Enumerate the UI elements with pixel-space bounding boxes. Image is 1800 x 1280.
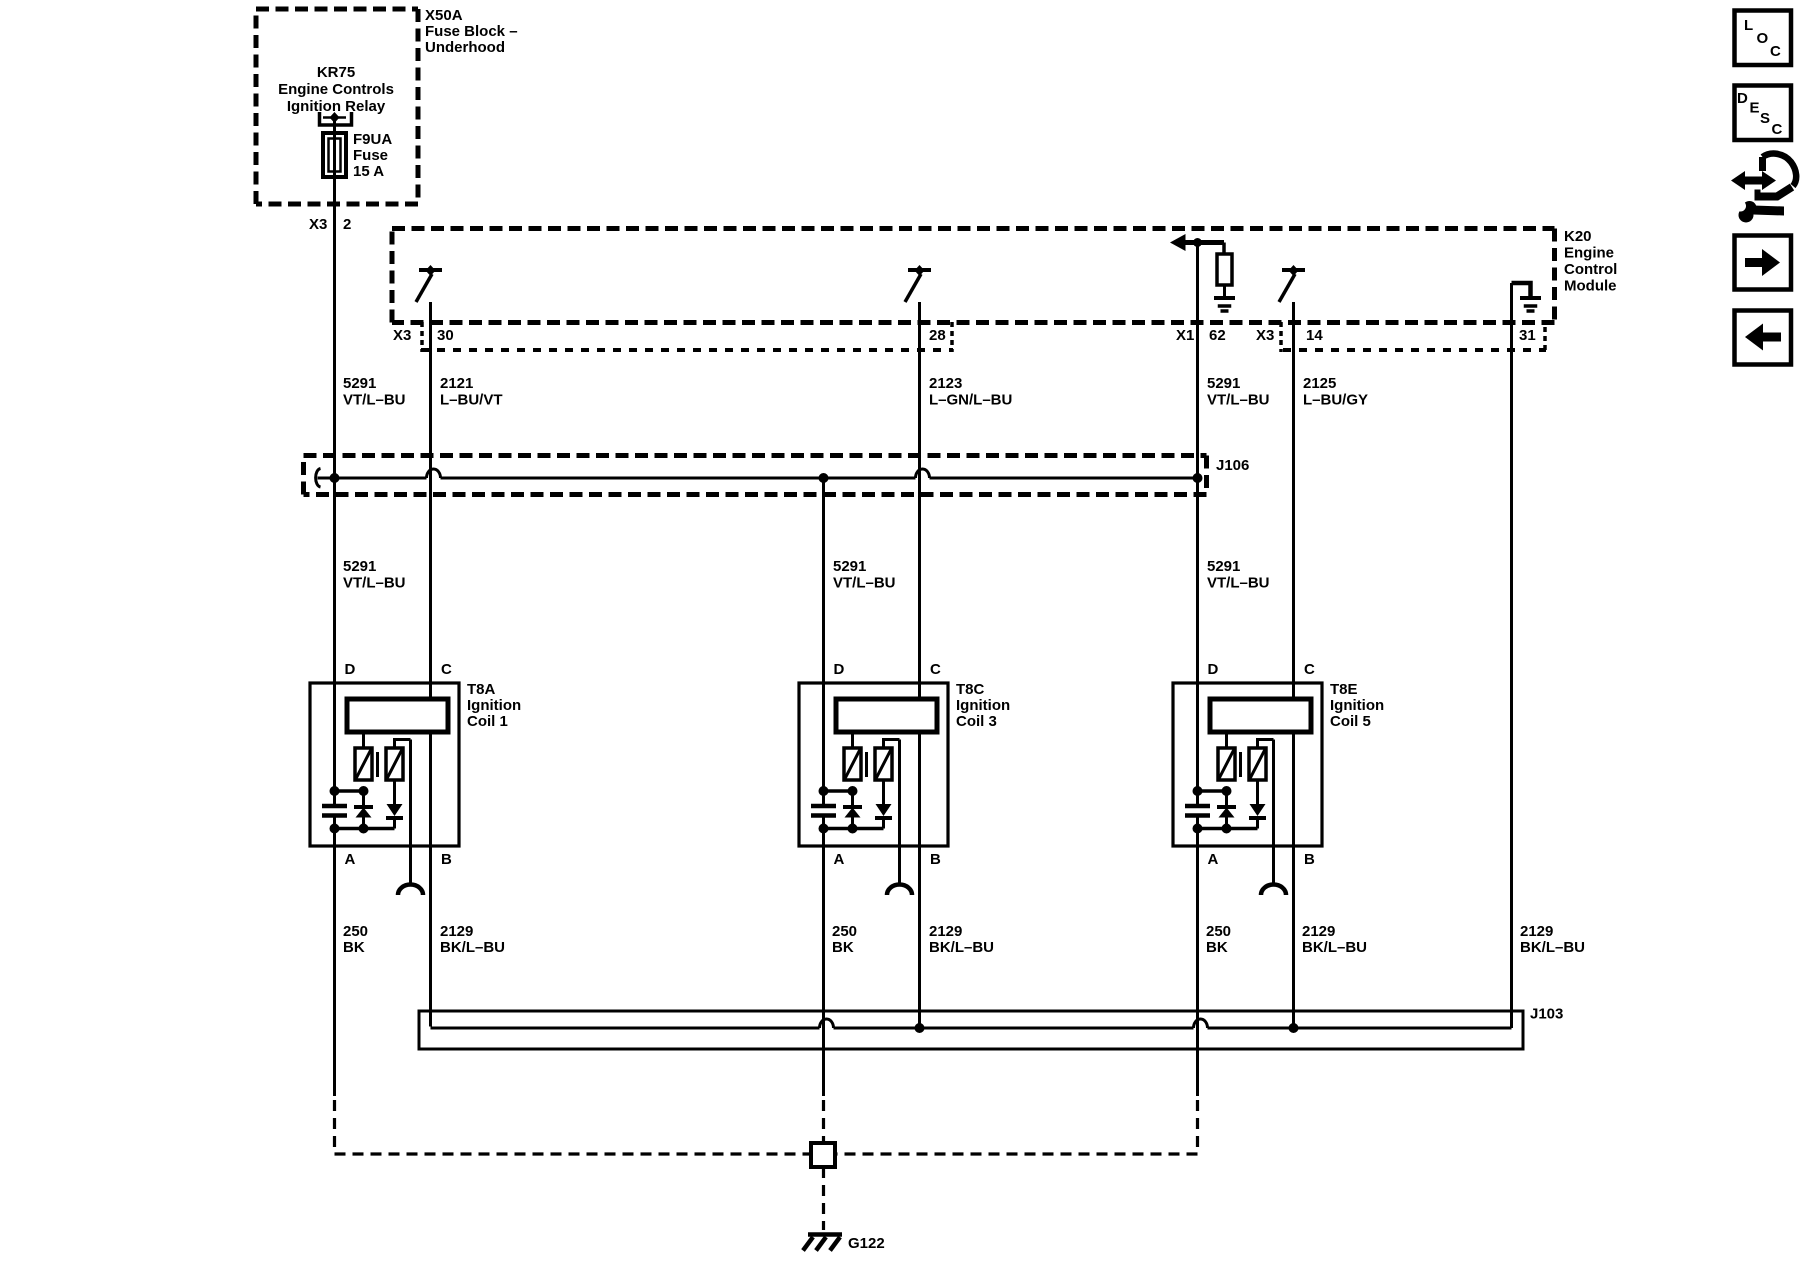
wire 2129 pin31 to J103 [1510, 283, 1513, 1028]
svg-text:BK/L–BU: BK/L–BU [929, 939, 994, 956]
svg-text:KR75: KR75 [317, 64, 355, 81]
svg-text:BK: BK [832, 939, 854, 956]
svg-text:2: 2 [343, 216, 351, 233]
button next arrow [1735, 236, 1792, 290]
svg-text:BK/L–BU: BK/L–BU [1520, 939, 1585, 956]
label wire 2123 [929, 375, 1012, 409]
svg-text:J103: J103 [1530, 1006, 1563, 1023]
svg-text:X3: X3 [309, 216, 327, 233]
svg-text:30: 30 [437, 327, 454, 344]
svg-text:T8C: T8C [956, 681, 985, 698]
svg-text:X3: X3 [1256, 327, 1274, 344]
svg-text:T8E: T8E [1330, 681, 1358, 698]
connector labels X3 14 [1256, 327, 1323, 344]
svg-text:28: 28 [929, 327, 946, 344]
label X50A Fuse Block Underhood [425, 7, 518, 56]
svg-text:C: C [1772, 121, 1783, 138]
svg-text:L–BU/GY: L–BU/GY [1303, 392, 1368, 409]
label wire 2129 col1 [440, 923, 505, 956]
label K20 Engine Control Module [1564, 228, 1617, 295]
wire 5291 pin62 to coil5 [1196, 243, 1199, 806]
svg-text:Fuse Block –: Fuse Block – [425, 23, 518, 40]
ground G122 [803, 1235, 842, 1251]
label wire 5291 row1 col1 [343, 375, 406, 409]
label wire 250 col3 [832, 923, 857, 956]
svg-text:VT/L–BU: VT/L–BU [833, 575, 896, 592]
svg-text:15 A: 15 A [353, 163, 384, 180]
svg-text:Fuse: Fuse [353, 147, 388, 164]
svg-text:62: 62 [1209, 327, 1226, 344]
button LOC [1735, 11, 1792, 66]
splice J106 dashed box [304, 456, 1207, 495]
ECM driver pin30 [416, 265, 442, 302]
wire 2125 pin14 to coil5 C [1292, 302, 1295, 699]
button DESC [1735, 86, 1792, 141]
svg-text:2123: 2123 [929, 375, 962, 392]
svg-text:X1: X1 [1176, 327, 1194, 344]
wire 5291 J106 to coil3 [822, 478, 825, 806]
splice J103 junction dots [915, 1023, 1299, 1033]
svg-text:5291: 5291 [1207, 375, 1240, 392]
label wire 2129 pin31 [1520, 923, 1585, 956]
connector labels X1 62 [1176, 327, 1226, 344]
svg-text:Ignition Relay: Ignition Relay [287, 98, 386, 115]
label wire 2121 [440, 375, 503, 409]
svg-text:BK/L–BU: BK/L–BU [440, 939, 505, 956]
wire 5291 fuse to coil1 [333, 119, 336, 806]
dashed ground wire col1 [335, 1097, 812, 1154]
wire 2123 pin28 to coil3 C [918, 302, 921, 699]
svg-text:VT/L–BU: VT/L–BU [343, 392, 406, 409]
svg-text:2125: 2125 [1303, 375, 1336, 392]
svg-text:5291: 5291 [833, 558, 866, 575]
svg-text:250: 250 [343, 923, 368, 940]
svg-text:J106: J106 [1216, 457, 1249, 474]
ECM pullup resistor [1217, 243, 1232, 297]
dashed wire to G122 [822, 1167, 825, 1230]
svg-text:Ignition: Ignition [467, 697, 521, 714]
button back arrow [1735, 311, 1792, 365]
ignition coil T8A [310, 661, 459, 895]
fuse F9UA [323, 133, 346, 177]
svg-text:5291: 5291 [343, 558, 376, 575]
label wire 250 col5 [1206, 923, 1231, 956]
label KR75 Engine Controls Ignition Relay [278, 64, 394, 115]
label wire 5291 row1 col5 [1207, 375, 1270, 409]
label wire 5291 row2 col5 [1207, 558, 1270, 592]
svg-text:Module: Module [1564, 278, 1617, 295]
svg-text:2121: 2121 [440, 375, 473, 392]
svg-text:X3: X3 [393, 327, 411, 344]
svg-text:5291: 5291 [343, 375, 376, 392]
connector label X3 pin 2 [309, 216, 351, 233]
connector separator [950, 322, 954, 352]
svg-text:S: S [1760, 110, 1770, 127]
svg-text:VT/L–BU: VT/L–BU [1207, 575, 1270, 592]
connector separator [1543, 327, 1547, 352]
svg-text:X50A: X50A [425, 7, 463, 24]
wire 2129 coil3 B [918, 846, 921, 1028]
svg-text:Ignition: Ignition [1330, 697, 1384, 714]
wire 2121 pin30 to coil1 C [429, 302, 432, 699]
wire 2129 coil1 B [429, 846, 432, 1027]
label wire 2125 [1303, 375, 1368, 409]
svg-text:Coil 3: Coil 3 [956, 713, 997, 730]
wire 2129 coil5 B [1292, 846, 1295, 1028]
svg-text:2129: 2129 [440, 923, 473, 940]
dashed ground wire col3 [822, 1097, 825, 1143]
splice J103 bus [431, 1019, 1512, 1028]
label T8E Ignition Coil 5 [1330, 681, 1384, 730]
connector dotted line right [1283, 348, 1546, 352]
svg-text:31: 31 [1519, 327, 1536, 344]
label wire 250 col1 [343, 923, 368, 956]
splice J106 bus [316, 469, 1198, 488]
wire 250 coil3 A [822, 846, 825, 1096]
svg-text:G122: G122 [848, 1235, 885, 1252]
svg-text:BK: BK [343, 939, 365, 956]
svg-text:Engine: Engine [1564, 245, 1614, 262]
svg-text:250: 250 [832, 923, 857, 940]
svg-text:F9UA: F9UA [353, 131, 392, 148]
svg-text:Control: Control [1564, 261, 1617, 278]
svg-text:T8A: T8A [467, 681, 496, 698]
svg-text:VT/L–BU: VT/L–BU [343, 575, 406, 592]
label wire 2129 col5 [1302, 923, 1367, 956]
svg-text:L: L [1744, 17, 1753, 34]
ignition coil T8E [1173, 661, 1322, 895]
svg-text:VT/L–BU: VT/L–BU [1207, 392, 1270, 409]
wire 250 coil1 A [333, 846, 336, 1096]
svg-text:L–GN/L–BU: L–GN/L–BU [929, 392, 1012, 409]
svg-text:Underhood: Underhood [425, 39, 505, 56]
svg-text:K20: K20 [1564, 228, 1592, 245]
svg-text:Coil 5: Coil 5 [1330, 713, 1371, 730]
svg-text:Coil 1: Coil 1 [467, 713, 508, 730]
svg-text:5291: 5291 [1207, 558, 1240, 575]
svg-text:O: O [1757, 30, 1769, 47]
connector separator [420, 322, 424, 352]
dashed ground wire col5 [835, 1097, 1198, 1154]
connector separator [1279, 322, 1283, 352]
ECM internal ground at resistor [1214, 298, 1235, 311]
svg-text:2129: 2129 [1520, 923, 1553, 940]
svg-text:E: E [1750, 100, 1760, 117]
svg-text:BK/L–BU: BK/L–BU [1302, 939, 1367, 956]
svg-text:14: 14 [1306, 327, 1323, 344]
ECM internal ground pin31 [1512, 283, 1531, 296]
svg-text:2129: 2129 [1302, 923, 1335, 940]
svg-text:250: 250 [1206, 923, 1231, 940]
svg-text:2129: 2129 [929, 923, 962, 940]
svg-text:BK: BK [1206, 939, 1228, 956]
ignition coil T8C [799, 661, 948, 895]
ECM K20 dashed box [392, 229, 1555, 323]
wire 250 coil5 A [1196, 846, 1199, 1096]
relay KR75 contact [320, 112, 352, 125]
label T8C Ignition Coil 3 [956, 681, 1010, 730]
splice J103 outer loop [419, 1011, 1523, 1049]
label T8A Ignition Coil 1 [467, 681, 521, 730]
ECM sense arrow pin62 [1170, 234, 1224, 251]
label wire 2129 col3 [929, 923, 994, 956]
svg-text:Engine Controls: Engine Controls [278, 81, 394, 98]
splice J106 junction dots [330, 473, 1203, 483]
connector dotted line left [421, 348, 953, 352]
connector labels X3 30 [393, 327, 454, 344]
label wire 5291 row2 col3 [833, 558, 896, 592]
ground junction box [811, 1143, 835, 1167]
fuse block X50A dashed box [256, 9, 418, 204]
icon hotlink arrows [1731, 154, 1796, 223]
ECM driver pin14 [1279, 265, 1305, 302]
label wire 5291 row2 col1 [343, 558, 406, 592]
label F9UA Fuse 15A [353, 131, 392, 180]
svg-text:Ignition: Ignition [956, 697, 1010, 714]
svg-text:L–BU/VT: L–BU/VT [440, 392, 503, 409]
ECM driver pin28 [905, 265, 931, 302]
svg-text:D: D [1737, 90, 1748, 107]
svg-text:C: C [1770, 43, 1781, 60]
